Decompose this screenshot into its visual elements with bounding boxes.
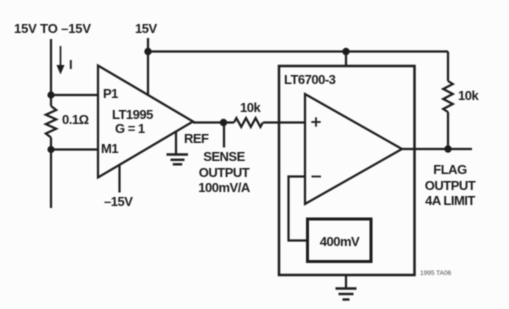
svg-text:LT6700-3: LT6700-3 (284, 72, 336, 87)
svg-text:10k: 10k (240, 100, 261, 115)
svg-text:15V TO –15V: 15V TO –15V (14, 21, 91, 36)
svg-text:0.1Ω: 0.1Ω (62, 112, 89, 127)
svg-text:REF: REF (184, 131, 209, 146)
svg-text:4A LIMIT: 4A LIMIT (425, 193, 475, 208)
svg-text:M1: M1 (101, 141, 118, 156)
svg-text:G = 1: G = 1 (115, 121, 145, 136)
svg-text:SENSE: SENSE (203, 149, 245, 164)
svg-text:–15V: –15V (104, 194, 133, 209)
svg-text:10k: 10k (458, 88, 479, 103)
svg-text:1995 TA06: 1995 TA06 (420, 270, 452, 277)
svg-text:100mV/A: 100mV/A (198, 180, 251, 195)
svg-text:I: I (69, 57, 72, 72)
svg-text:400mV: 400mV (320, 234, 360, 249)
svg-text:LT1995: LT1995 (112, 107, 153, 122)
svg-text:OUTPUT: OUTPUT (425, 178, 476, 193)
svg-text:P1: P1 (103, 86, 118, 101)
svg-text:OUTPUT: OUTPUT (199, 165, 250, 180)
svg-text:15V: 15V (135, 21, 157, 36)
svg-text:FLAG: FLAG (433, 162, 467, 177)
